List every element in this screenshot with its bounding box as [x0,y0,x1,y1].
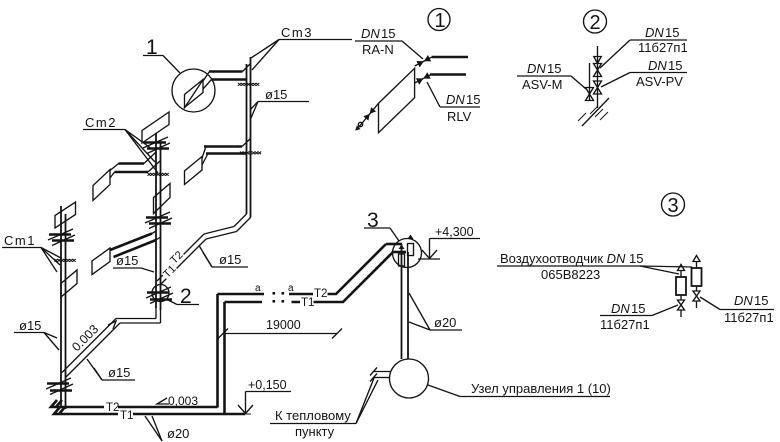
svg-text:15: 15 [665,25,679,40]
radiator Cm2 floor1 [142,112,169,143]
wire Cm2 floor3 branch [110,231,161,257]
radiator Cm2 right lower [154,184,171,214]
svg-text:ø15: ø15 [19,318,41,333]
svg-text:19000: 19000 [266,318,301,332]
wire second branch pipe [430,73,466,76]
svg-text:DN: DN [446,92,465,107]
wire detail2 vertical B [589,63,591,101]
svg-text:DN: DN [361,26,380,41]
radiator Cm3 floor1 [184,79,204,109]
svg-text:DN: DN [734,293,753,308]
label DN15 RA-N [355,26,423,59]
label Воздухоотводчик DN15 065В8223 [497,251,692,282]
riser Cm1 [61,206,66,409]
floor slab hatch at Cm3 f1 [238,83,259,86]
svg-text:ø15: ø15 [265,87,287,102]
wire Cm2 bottom step [116,308,161,323]
control unit circle [390,359,429,398]
svg-text:15: 15 [466,92,480,107]
ground hatch detail 2 [578,98,609,126]
floor slab hatch at Cm3 f2 [240,152,261,155]
break symbol at Cm2 bottom [146,287,173,304]
label К тепловому пункту [270,378,378,439]
svg-text:Cm1: Cm1 [4,233,36,248]
svg-text:RLV: RLV [447,109,472,124]
svg-text:T1: T1 [301,297,314,309]
svg-text:2: 2 [590,12,601,34]
wire Cm3 floor1 branch [203,64,251,90]
air vent small left [399,245,405,267]
label ф20 (riser to unit) [409,293,462,330]
valve bottom left branch [355,103,378,130]
node break marks a..a [255,283,294,303]
valve ASV-M on B [586,88,594,101]
radiator Cm2 floor2 [93,170,110,201]
valve 11627 top on A [594,64,602,77]
svg-text:3: 3 [668,195,679,217]
label slope 0,003 bottom [157,394,198,408]
svg-text:11б27п1: 11б27п1 [600,317,650,332]
air vent device right [692,256,702,309]
callout circle detail 1 [428,9,450,33]
radiator Cm2 floor3 [92,248,110,275]
svg-text:T2: T2 [106,402,119,414]
wire bottom main T2 [51,294,218,408]
node T2 T1 labels bottom [106,402,133,422]
svg-text:11б27п1: 11б27п1 [638,40,688,55]
svg-text:DN: DN [527,61,546,76]
valve on A second [594,81,602,94]
radiator Cm1 floor1 [55,202,76,228]
air vent small right [408,235,414,256]
svg-text:ø15: ø15 [116,253,138,268]
svg-text:15: 15 [631,301,645,316]
svg-text:15: 15 [668,58,682,73]
radiator detail 1 [379,68,415,132]
svg-text:ø20: ø20 [167,426,189,441]
callout circle 1 [143,36,215,112]
svg-text:ø20: ø20 [434,315,456,330]
wire bottom main T1 [54,302,251,414]
label DN15 11627п1 bottom left [600,301,678,332]
svg-text:К тепловому: К тепловому [275,408,351,423]
floor slab hatch at Cm2 f2 [148,173,169,176]
label ф15 (mid diagonal) [199,246,248,268]
svg-text:ASV-M: ASV-M [522,77,562,92]
svg-text:Cm2: Cm2 [85,115,117,130]
wire stub to heat point [370,368,391,382]
label ф20 bottom [145,416,189,441]
svg-text:Воздухоотводчик DN 15: Воздухоотводчик DN 15 [500,251,643,266]
node Cm1 label [2,233,61,272]
svg-text:ø15: ø15 [108,365,130,380]
wire 0.003 diagonal to Cm1 [62,319,120,378]
wire upper main T2 run [218,244,394,302]
label ф15 (lower diagonal) [87,359,135,380]
wire diagonal to unit pipe [386,244,406,252]
svg-text:Узел управления 1 (10): Узел управления 1 (10) [471,381,611,396]
label DN15 ASV-PV [601,58,687,89]
break symbol at Cm2 top [143,137,170,154]
svg-text:+0,150: +0,150 [248,378,287,392]
riser Cm3 [247,57,251,218]
svg-text:a: a [255,283,261,294]
break symbol at Cm1 top [48,229,75,246]
callout circle detail 3 [662,193,685,217]
svg-text:Cm3: Cm3 [281,25,313,40]
elevation +4,300 [418,225,480,259]
floor slab hatch at Cm1 [55,259,76,262]
air vent device left [676,265,686,318]
label DN15 11627п1 [600,25,688,68]
svg-text:RA-N: RA-N [362,42,394,57]
svg-text:0,003: 0,003 [168,394,198,408]
wire vertical pipe to control unit [402,244,409,359]
radiator Cm1 floor2 right [61,270,77,297]
svg-text:15: 15 [547,61,561,76]
valve RA-N on top branch [415,55,433,67]
elevation +0,150 [238,378,291,414]
callout circle 3 on plan [364,209,422,268]
label Узел управления 1 (10) [428,381,611,397]
svg-text:065В8223: 065В8223 [541,267,600,282]
wire top branch pipe [432,56,468,59]
radiator Cm3 floor2 [185,157,203,185]
break symbol at Cm2 mid [145,212,172,229]
wire Cm3 bottom elbow to main [204,214,251,239]
svg-text:DN: DN [648,58,667,73]
node Cm3 label [251,25,352,70]
label ф15 (Cm2 lower) [113,253,154,272]
wire detail2 vertical A [597,46,599,108]
node T2 T1 labels upper [301,288,327,309]
svg-text:T1: T1 [120,410,133,422]
valve RLV on second branch [415,72,432,84]
svg-text:пункту: пункту [295,424,335,439]
svg-text:ASV-PV: ASV-PV [636,74,683,89]
riser Cm2 [156,133,161,310]
label DN15 ASV-M [517,61,586,92]
label ф15 (Cm3 upper) [250,87,309,118]
svg-text:T2: T2 [314,288,327,300]
callout circle detail 2 [584,10,607,34]
label DN15 RLV [427,82,480,124]
svg-text:1: 1 [435,10,446,32]
node Cm2 label [83,115,158,173]
wire Cm2 floor2 branch [110,152,161,178]
dimension 19000 [218,318,342,339]
svg-text:15: 15 [754,293,768,308]
svg-text:a: a [288,283,294,294]
label DN15 11627п1 bottom right [700,293,774,325]
break symbol at Cm1 bottom [46,378,73,395]
wire Cm3 floor2 branch [202,139,251,166]
svg-text:11б27п1: 11б27п1 [724,310,774,325]
label 0.003 on diagonal [69,321,116,354]
svg-text:ø15: ø15 [219,252,241,267]
svg-text:DN: DN [645,25,664,40]
svg-text:15: 15 [381,26,395,41]
wire diagonal main T1/T2 to circle 2 [157,234,206,284]
label ф15 (Cm1) [14,318,59,350]
svg-text:+4,300: +4,300 [435,225,474,239]
svg-text:DN: DN [611,301,630,316]
node T1 T2 labels on diagonal [160,249,186,282]
callout circle 2 (on plan) [152,285,199,309]
